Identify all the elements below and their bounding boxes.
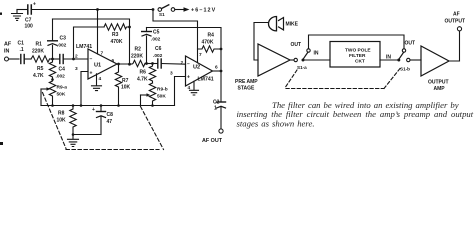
two pole filter box bbox=[330, 42, 380, 68]
capacitor C1 bbox=[18, 41, 25, 64]
node feedback column on output bbox=[128, 63, 131, 66]
svg-text:220K: 220K bbox=[131, 54, 143, 60]
svg-text:IN: IN bbox=[386, 55, 391, 61]
op-amp U1 bbox=[76, 44, 117, 79]
resistor R5 (node A down) bbox=[33, 59, 56, 80]
wire U1 pin 3 to bias rail bbox=[81, 72, 88, 106]
edge artifact marks bbox=[0, 142, 3, 145]
svg-text:4: 4 bbox=[99, 76, 102, 82]
wire U1 pin 7 bbox=[97, 10, 99, 55]
wire S1-b to output amp bbox=[410, 59, 421, 61]
resistor R2 bbox=[131, 47, 145, 67]
svg-text:470K: 470K bbox=[202, 40, 214, 46]
svg-text:4: 4 bbox=[188, 85, 191, 91]
svg-text:IN: IN bbox=[4, 49, 9, 55]
potentiometer R9-a bbox=[41, 80, 67, 106]
U1 pin 4 ground bbox=[92, 74, 102, 91]
svg-text:2: 2 bbox=[75, 54, 78, 60]
svg-text:R2: R2 bbox=[135, 47, 142, 53]
node rail to U1 pin7 bbox=[96, 8, 99, 11]
dashed gang line S1-b bbox=[384, 69, 400, 89]
node AF OUT terminal bbox=[219, 129, 223, 133]
svg-text:C1: C1 bbox=[18, 41, 25, 47]
svg-text:+: + bbox=[33, 2, 36, 8]
svg-text:7: 7 bbox=[101, 51, 104, 57]
node AF OUTPUT terminal bbox=[457, 27, 461, 31]
resistor R6 bbox=[137, 64, 156, 84]
svg-text:50K: 50K bbox=[157, 94, 166, 100]
svg-text:C8: C8 bbox=[107, 112, 114, 118]
svg-text:10K: 10K bbox=[57, 118, 67, 124]
dashed gang line R9-a bbox=[43, 93, 67, 149]
svg-text:+: + bbox=[92, 107, 95, 113]
capacitor C7 bbox=[25, 2, 37, 30]
svg-text:IN: IN bbox=[314, 51, 319, 57]
svg-text:2: 2 bbox=[181, 60, 184, 66]
svg-text:C6: C6 bbox=[155, 46, 162, 52]
svg-text:PRE AMP: PRE AMP bbox=[235, 79, 258, 85]
svg-text:C4: C4 bbox=[59, 67, 66, 73]
svg-text:+: + bbox=[187, 75, 190, 81]
svg-text:R3: R3 bbox=[112, 32, 119, 38]
op-amp U2 bbox=[186, 56, 213, 86]
resistor R3 (feedback) bbox=[74, 24, 130, 59]
node R3 tap bbox=[72, 58, 75, 61]
svg-text:47: 47 bbox=[107, 119, 113, 125]
dashed gang line R9-b bbox=[141, 107, 164, 150]
wire preamp output bbox=[290, 59, 294, 61]
svg-text:R5: R5 bbox=[37, 66, 44, 72]
svg-text:R9-b: R9-b bbox=[157, 87, 168, 93]
wire mike to preamp input bbox=[254, 23, 268, 61]
wire filter box to S1-b bbox=[380, 59, 397, 61]
resistor R7 bbox=[115, 64, 130, 106]
wire output down to C2 bbox=[220, 71, 222, 102]
svg-text:R9-a: R9-a bbox=[57, 85, 68, 91]
wire output amp to AF OUTPUT bbox=[449, 31, 460, 61]
wire S1 to supply arrow bbox=[175, 9, 184, 11]
capacitor C2 bbox=[213, 100, 226, 130]
svg-text:TWO POLE: TWO POLE bbox=[345, 48, 371, 54]
dashed gang line bottom bbox=[66, 149, 159, 151]
svg-text:R7: R7 bbox=[122, 78, 129, 84]
microphone MIKE bbox=[269, 17, 299, 31]
svg-text:R8: R8 bbox=[58, 111, 65, 117]
svg-text:OUT: OUT bbox=[291, 42, 302, 48]
wire C6 to U2 pin 2 bbox=[161, 63, 185, 66]
capacitor C6 bbox=[153, 46, 163, 68]
node R5/R9a junction bbox=[51, 78, 54, 81]
pre amp triangle bbox=[235, 44, 290, 92]
wire bbox=[24, 58, 31, 60]
svg-text:4.7K: 4.7K bbox=[137, 77, 148, 83]
svg-text:STAGE: STAGE bbox=[238, 86, 256, 92]
svg-text:FILTER: FILTER bbox=[349, 53, 366, 59]
svg-text:R1: R1 bbox=[36, 42, 43, 48]
resistor R1 bbox=[31, 42, 50, 63]
wire U2 output bbox=[213, 70, 222, 72]
potentiometer R9-b bbox=[141, 83, 168, 106]
svg-text:3: 3 bbox=[170, 71, 173, 77]
svg-text:OUTPUT: OUTPUT bbox=[428, 80, 449, 86]
svg-text:stages as shown here.: stages as shown here. bbox=[237, 119, 315, 129]
svg-text:220K: 220K bbox=[32, 49, 44, 55]
wire power branch to U2 pin 7 bbox=[153, 10, 198, 63]
svg-text:R6: R6 bbox=[140, 70, 147, 76]
output amp triangle bbox=[421, 46, 449, 92]
svg-text:S1: S1 bbox=[159, 12, 165, 17]
dashed gang line S1-a bbox=[286, 70, 298, 87]
wire bias rail bbox=[41, 105, 175, 107]
ground (top left, for C7) bbox=[12, 10, 23, 21]
switch S1-b bbox=[397, 49, 410, 72]
svg-text:4.7K: 4.7K bbox=[33, 73, 44, 79]
U2 pin 4 ground bbox=[188, 81, 199, 95]
node AF IN terminal bbox=[4, 42, 12, 62]
resistor R8 bbox=[57, 106, 77, 135]
node A bbox=[51, 58, 54, 61]
svg-text:AF: AF bbox=[4, 42, 12, 48]
svg-text:C5: C5 bbox=[153, 30, 160, 36]
switch S1-a bbox=[294, 49, 310, 70]
wire S1-a to filter box bbox=[305, 59, 331, 61]
svg-text:OUT: OUT bbox=[405, 41, 416, 47]
node B (C5 tap) bbox=[145, 62, 148, 65]
svg-text:.1: .1 bbox=[20, 47, 24, 53]
wire C4 to U1 pin 2 bbox=[63, 58, 88, 60]
svg-text:LM741: LM741 bbox=[198, 77, 214, 83]
resistor R4 (feedback) bbox=[198, 33, 222, 53]
svg-text:R4: R4 bbox=[208, 33, 215, 39]
wire C3 feedback line to U1 output column bbox=[53, 19, 130, 64]
svg-text:.002: .002 bbox=[151, 37, 161, 43]
svg-text:U2: U2 bbox=[193, 65, 200, 71]
switch S1 bbox=[158, 5, 175, 17]
svg-text:CKT: CKT bbox=[355, 59, 365, 65]
wire ground to C7 bbox=[17, 9, 27, 11]
node R3 right / feedback column bbox=[128, 26, 131, 29]
svg-text:10K: 10K bbox=[121, 85, 131, 91]
svg-text:MIKE: MIKE bbox=[286, 22, 299, 28]
wire R8/C8 bottoms bbox=[73, 134, 101, 136]
svg-text:−: − bbox=[90, 57, 93, 63]
dashed gang line bottom (right) bbox=[286, 88, 384, 90]
capacitor C4 bbox=[56, 55, 66, 80]
svg-text:−: − bbox=[187, 62, 190, 68]
svg-text:3: 3 bbox=[75, 66, 78, 72]
svg-text:7: 7 bbox=[199, 52, 202, 58]
svg-text:6: 6 bbox=[215, 65, 218, 71]
wire R1 to C4 bbox=[50, 58, 59, 60]
svg-text:C3: C3 bbox=[60, 36, 67, 42]
svg-text:U1: U1 bbox=[94, 63, 101, 69]
svg-text:LM741: LM741 bbox=[76, 44, 92, 50]
svg-text:OUTPUT: OUTPUT bbox=[445, 19, 466, 25]
svg-text:470K: 470K bbox=[111, 39, 123, 45]
svg-text:1: 1 bbox=[214, 106, 217, 112]
capacitor C8 bbox=[92, 106, 113, 135]
svg-text:.002: .002 bbox=[57, 43, 67, 49]
svg-text:S1-a: S1-a bbox=[297, 65, 307, 70]
node rail to S1 branch bbox=[152, 8, 155, 11]
svg-text:+: + bbox=[90, 71, 93, 77]
wire bypass top line bbox=[309, 35, 405, 49]
svg-text:AMP: AMP bbox=[434, 86, 446, 92]
node R7 tap bbox=[117, 63, 120, 66]
svg-text:6: 6 bbox=[112, 58, 115, 64]
wire +V rail bbox=[31, 9, 153, 11]
svg-text:AF: AF bbox=[453, 12, 460, 18]
wire U2 pin 3 to bias rail bbox=[175, 77, 186, 106]
wire C5 feedback line to U2 output column bbox=[147, 28, 222, 72]
svg-text:S1-b: S1-b bbox=[400, 67, 410, 72]
svg-text:.002: .002 bbox=[56, 74, 66, 80]
svg-text:AF OUT: AF OUT bbox=[202, 138, 223, 144]
svg-text:.002: .002 bbox=[153, 53, 163, 59]
capacitor C5 (node B up to feedback line) bbox=[142, 28, 161, 64]
svg-text:50K: 50K bbox=[57, 92, 66, 98]
wire bbox=[9, 58, 20, 60]
wire U1 output bbox=[117, 63, 132, 65]
capacitor C3 (node A up to feedback line) bbox=[48, 19, 67, 59]
node R6 tap bbox=[151, 62, 154, 65]
ground (below R8) bbox=[68, 135, 79, 147]
svg-text:+6–12V: +6–12V bbox=[191, 8, 216, 14]
svg-text:100: 100 bbox=[25, 24, 34, 30]
